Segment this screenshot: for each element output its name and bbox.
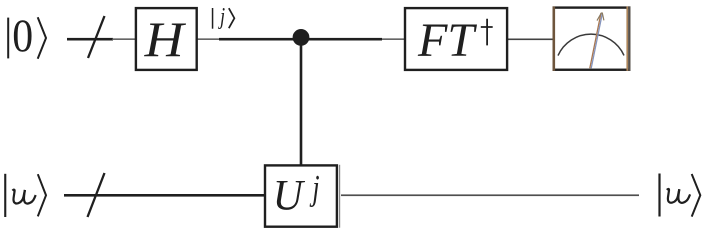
svg-text:j: j <box>218 4 226 30</box>
svg-text:0: 0 <box>12 11 33 62</box>
svg-text:U: U <box>273 172 306 220</box>
svg-text:H: H <box>144 11 187 67</box>
svg-text:FT: FT <box>417 14 478 67</box>
